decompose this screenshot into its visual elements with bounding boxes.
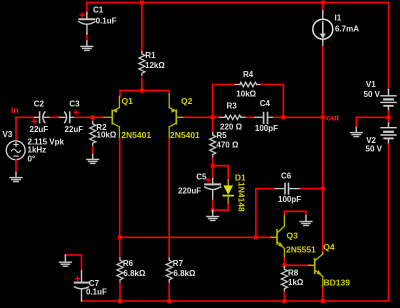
junction R1 top rail bbox=[140, 1, 144, 5]
source V3 bbox=[6, 141, 25, 160]
wire Q1 collector down bbox=[119, 139, 121, 258]
wire C6 left + drop to Q3 base bbox=[256, 189, 274, 238]
plus mark C5 bbox=[206, 178, 210, 182]
svg-text:1kHz: 1kHz bbox=[28, 145, 47, 154]
junction Q3 emitter R8 Q4 base bbox=[282, 263, 286, 267]
svg-text:470 Ω: 470 Ω bbox=[216, 141, 239, 150]
wire C5 top lead bbox=[212, 166, 214, 179]
transistor Q2 2N5401 PNP bbox=[169, 94, 185, 139]
junction C4 R4 bbox=[281, 115, 285, 119]
resistor R5 bbox=[210, 133, 216, 157]
wire R5 bottom bbox=[212, 158, 214, 166]
wire C7 top to ground bbox=[65, 255, 81, 271]
svg-text:1kΩ: 1kΩ bbox=[288, 278, 304, 287]
plus mark C7 bbox=[76, 277, 80, 281]
junction C6 rail bbox=[321, 187, 325, 191]
svg-text:C1: C1 bbox=[93, 6, 104, 15]
wire R6 bottom bbox=[119, 283, 121, 301]
junction base node R2 bbox=[91, 115, 95, 119]
svg-text:C4: C4 bbox=[260, 99, 271, 108]
svg-text:V3: V3 bbox=[3, 130, 13, 139]
capacitor C2 bbox=[35, 112, 51, 123]
resistor R1 bbox=[139, 52, 145, 76]
diode D1 1N4148 bbox=[223, 180, 233, 204]
battery V2 bbox=[381, 123, 396, 145]
wire bottom rail bbox=[82, 300, 389, 302]
svg-text:R1: R1 bbox=[145, 51, 156, 60]
svg-text:C3: C3 bbox=[69, 99, 80, 108]
wire V3 top lead bbox=[15, 117, 17, 139]
wire Q1 collector to Q3 base bbox=[120, 236, 276, 238]
junction R7 rail bbox=[167, 299, 171, 303]
junction node A (R3 R4 R5 Q2 base) bbox=[211, 115, 215, 119]
wire C3 to base node bbox=[75, 116, 105, 118]
wire C1 branch bbox=[86, 3, 88, 14]
svg-text:out: out bbox=[326, 113, 339, 123]
svg-text:2N5551: 2N5551 bbox=[286, 245, 316, 255]
ground under R2 bbox=[87, 155, 99, 164]
svg-text:10kΩ: 10kΩ bbox=[236, 90, 256, 99]
svg-text:V2: V2 bbox=[366, 136, 376, 145]
svg-text:100pF: 100pF bbox=[278, 195, 301, 204]
svg-text:Q4: Q4 bbox=[323, 242, 335, 252]
wire Q1 emitter lead bbox=[119, 91, 121, 97]
svg-text:I1: I1 bbox=[335, 14, 342, 23]
wire D1 branch top bbox=[213, 166, 229, 181]
resistor R2 bbox=[90, 122, 96, 146]
wire right rail top (to V1) bbox=[388, 3, 390, 90]
svg-text:100pF: 100pF bbox=[255, 124, 278, 133]
wire Q4 base bbox=[284, 264, 313, 266]
wire R4 right leg bbox=[261, 85, 283, 118]
resistor R4 bbox=[235, 82, 262, 87]
ground under C1 bbox=[81, 41, 93, 50]
wire D1 bottom bbox=[213, 204, 229, 210]
svg-text:V1: V1 bbox=[366, 80, 376, 89]
svg-text:C6: C6 bbox=[281, 172, 292, 181]
transistor Q3 2N5551 NPN bbox=[271, 214, 284, 259]
svg-text:0°: 0° bbox=[28, 154, 36, 163]
wire C1 to ground segment bbox=[86, 34, 88, 41]
svg-text:22uF: 22uF bbox=[65, 125, 84, 134]
svg-text:R8: R8 bbox=[288, 269, 299, 278]
wire Q3 collector to ground loop bbox=[284, 211, 306, 216]
wire Q3 emitter to node bbox=[283, 258, 285, 265]
svg-text:6.8kΩ: 6.8kΩ bbox=[173, 269, 196, 278]
wire C6 right bbox=[301, 188, 323, 190]
wire Q4 emitter down bbox=[322, 288, 324, 301]
junction R5 C5 D1 bbox=[211, 164, 215, 168]
svg-text:0.1uF: 0.1uF bbox=[86, 288, 107, 297]
svg-text:1N4148: 1N4148 bbox=[236, 182, 246, 212]
wire Q2 collector down bbox=[168, 139, 170, 258]
resistor R7 bbox=[166, 258, 172, 282]
wire I1 down long rail to Q4 collector bbox=[322, 47, 324, 253]
svg-text:10kΩ: 10kΩ bbox=[97, 131, 117, 140]
plus mark C3 bbox=[74, 110, 78, 114]
wire R1 bottom bbox=[141, 78, 143, 90]
capacitor C1 bbox=[79, 13, 95, 35]
svg-text:C2: C2 bbox=[34, 99, 45, 108]
capacitor C4 bbox=[255, 113, 274, 124]
svg-text:6.8kΩ: 6.8kΩ bbox=[123, 269, 146, 278]
wire R5 top bbox=[212, 117, 214, 133]
wire Q2 emitter lead bbox=[168, 91, 170, 95]
capacitor C5 bbox=[205, 179, 221, 201]
wire emitter rail Q1-Q2 bbox=[120, 90, 169, 92]
svg-text:R4: R4 bbox=[243, 70, 254, 79]
ground above C7 bbox=[60, 255, 72, 266]
capacitor C6 bbox=[273, 183, 301, 193]
junction R6 rail bbox=[118, 299, 122, 303]
junction C5 D1 ground bbox=[211, 208, 215, 212]
junction out node bbox=[321, 115, 325, 119]
svg-text:R5: R5 bbox=[216, 131, 227, 140]
resistor R6 bbox=[117, 258, 123, 282]
wire V2 down right rail bbox=[388, 144, 390, 301]
junction R1 emitter rail bbox=[140, 89, 144, 93]
wire R8 bottom bbox=[283, 292, 285, 301]
junction V1 V2 mid bbox=[387, 115, 391, 119]
battery V1 bbox=[381, 90, 396, 112]
wire V1 bottom bbox=[388, 111, 390, 117]
wire R2 bottom bbox=[92, 147, 94, 155]
svg-text:22uF: 22uF bbox=[30, 125, 49, 134]
wire V3 bottom lead bbox=[15, 160, 17, 173]
svg-text:2N5401: 2N5401 bbox=[121, 130, 151, 140]
wire R1 top bbox=[141, 3, 143, 52]
svg-text:2N5401: 2N5401 bbox=[170, 130, 200, 140]
current source I1 bbox=[313, 1, 333, 48]
wire R7 bottom bbox=[168, 283, 170, 301]
ground V1 V2 mid bbox=[350, 128, 362, 137]
resistor R8 bbox=[281, 267, 287, 291]
transistor Q1 2N5401 PNP bbox=[104, 96, 119, 139]
svg-text:50 V: 50 V bbox=[364, 90, 381, 99]
svg-text:Q2: Q2 bbox=[181, 96, 193, 106]
wire R2 top bbox=[92, 117, 94, 122]
junction Q4 emitter bottom rail bbox=[321, 299, 325, 303]
wire C4 to out bbox=[274, 116, 323, 118]
svg-text:Q1: Q1 bbox=[122, 96, 134, 106]
svg-text:R6: R6 bbox=[123, 259, 134, 268]
junction Q1 collector to Q3 base wire bbox=[118, 235, 122, 239]
junction R8 bottom rail bbox=[282, 299, 286, 303]
wire top rail bbox=[87, 2, 389, 4]
capacitor C3 bbox=[59, 112, 75, 123]
junction C6 drop Q3 base wire bbox=[254, 235, 258, 239]
svg-text:12kΩ: 12kΩ bbox=[145, 61, 165, 70]
wire R4 branch left leg bbox=[213, 85, 235, 118]
svg-text:50 V: 50 V bbox=[366, 145, 383, 154]
svg-text:R3: R3 bbox=[227, 101, 238, 110]
wire node to R3 bbox=[213, 116, 221, 118]
wire C2-C3 bbox=[50, 116, 60, 118]
plus mark C1 bbox=[80, 13, 84, 17]
capacitor C7 bbox=[75, 271, 89, 301]
svg-text:220uF: 220uF bbox=[178, 187, 201, 196]
transistor Q4 BD139 NPN bbox=[309, 252, 323, 288]
wire R3 to C4 bbox=[246, 116, 255, 118]
svg-text:C5: C5 bbox=[196, 173, 207, 182]
svg-text:6.7mA: 6.7mA bbox=[335, 24, 359, 33]
wire V2 top bbox=[388, 117, 390, 123]
svg-text:Q3: Q3 bbox=[287, 231, 299, 241]
svg-text:0.1uF: 0.1uF bbox=[96, 17, 117, 26]
wire mid to ground bbox=[356, 117, 388, 128]
svg-text:R7: R7 bbox=[173, 259, 184, 268]
wire in node horizontal bbox=[16, 116, 36, 118]
ground under C5 D1 bbox=[207, 210, 219, 220]
ground under V3 bbox=[10, 172, 22, 181]
svg-text:in: in bbox=[11, 105, 19, 115]
wire R8 top bbox=[283, 265, 285, 267]
svg-text:BD139: BD139 bbox=[324, 278, 351, 288]
resistor R3 bbox=[220, 115, 247, 119]
wire C5 bottom bbox=[212, 201, 214, 211]
wire Q2 base to node bbox=[185, 116, 213, 118]
ground Q3 collector bbox=[300, 216, 312, 226]
plus mark C2 bbox=[32, 119, 36, 123]
